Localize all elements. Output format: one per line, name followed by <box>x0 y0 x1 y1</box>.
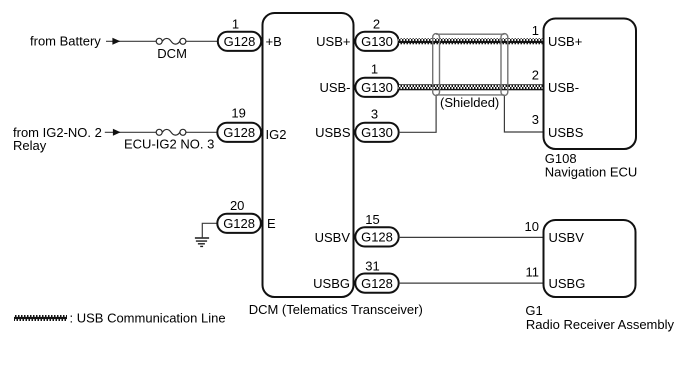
svg-text:3: 3 <box>371 107 378 122</box>
wire battery feed <box>106 40 218 42</box>
svg-text:USB-: USB- <box>548 80 579 95</box>
svg-text:15: 15 <box>365 212 379 227</box>
svg-text:1: 1 <box>232 17 239 32</box>
wire IG2 feed <box>105 131 218 133</box>
svg-text:IG2: IG2 <box>266 127 287 142</box>
arrow battery <box>112 38 120 45</box>
svg-text:ECU-IG2 NO. 3: ECU-IG2 NO. 3 <box>124 136 214 151</box>
connector G128 pin 20 <box>217 214 261 233</box>
svg-text:Navigation ECU: Navigation ECU <box>545 165 638 180</box>
arrow IG2 <box>113 129 121 136</box>
svg-text:G128: G128 <box>223 216 255 231</box>
svg-text:DCM (Telematics Transceiver): DCM (Telematics Transceiver) <box>249 302 423 317</box>
fuse ECU-IG2 NO. 3 <box>156 129 186 135</box>
shield around USB+ / USB- <box>433 34 508 96</box>
svg-text:: USB Communication Line: : USB Communication Line <box>70 310 226 325</box>
svg-text:USB+: USB+ <box>316 34 350 49</box>
svg-text:G130: G130 <box>361 80 393 95</box>
svg-text:20: 20 <box>230 198 244 213</box>
wire USB- shielded communication line <box>399 84 544 90</box>
svg-text:USB-: USB- <box>319 80 350 95</box>
svg-text:10: 10 <box>525 219 539 234</box>
wire ground to G128 pin 20 <box>202 223 218 237</box>
svg-text:G128: G128 <box>361 276 393 291</box>
connector G130 pin 1 <box>355 78 398 97</box>
G108 Navigation ECU box <box>544 19 637 150</box>
svg-text:DCM: DCM <box>157 46 187 61</box>
svg-text:1: 1 <box>371 62 378 77</box>
svg-text:(Shielded): (Shielded) <box>440 95 499 110</box>
svg-text:2: 2 <box>532 68 539 83</box>
connector G130 pin 2 <box>355 32 398 51</box>
svg-text:USBG: USBG <box>313 276 350 291</box>
svg-text:USBS: USBS <box>548 125 584 140</box>
svg-text:USBV: USBV <box>549 230 585 245</box>
DCM (Telematics Transceiver) box U1 <box>263 13 354 297</box>
svg-text:Relay: Relay <box>13 138 47 153</box>
svg-text:USBV: USBV <box>315 230 351 245</box>
svg-text:2: 2 <box>373 17 380 32</box>
svg-text:19: 19 <box>231 106 245 121</box>
svg-text:G128: G128 <box>361 230 393 245</box>
svg-text:E: E <box>267 216 276 231</box>
svg-text:from Battery: from Battery <box>30 34 101 49</box>
connector G128 pin 1 <box>218 32 261 51</box>
connector G130 pin 3 <box>355 123 398 142</box>
legend USB communication line swatch <box>14 315 67 321</box>
connector G128 pin 15 <box>355 227 398 246</box>
svg-text:1: 1 <box>532 23 539 38</box>
ground <box>195 238 209 246</box>
svg-text:Radio Receiver Assembly: Radio Receiver Assembly <box>526 317 675 332</box>
G1 Radio Receiver Assembly box <box>544 220 636 297</box>
fuse DCM <box>156 38 186 44</box>
svg-text:11: 11 <box>526 265 540 280</box>
svg-text:USBS: USBS <box>315 125 351 140</box>
svg-text:G130: G130 <box>361 34 393 49</box>
svg-text:G128: G128 <box>223 125 255 140</box>
svg-text:G130: G130 <box>361 125 393 140</box>
svg-text:G128: G128 <box>224 34 256 49</box>
svg-text:3: 3 <box>532 112 539 127</box>
svg-text:31: 31 <box>365 258 379 273</box>
wire USBS right segment <box>504 96 543 133</box>
wire USBS left segment <box>399 96 436 133</box>
wire USB+ shielded communication line <box>399 38 544 44</box>
svg-text:USB+: USB+ <box>548 34 582 49</box>
connector G128 pin 19 <box>217 123 261 142</box>
svg-text:+B: +B <box>266 34 282 49</box>
connector G128 pin 31 <box>355 274 398 293</box>
wire USBV <box>399 236 544 238</box>
wire USBG <box>399 282 544 284</box>
svg-text:USBG: USBG <box>549 276 586 291</box>
